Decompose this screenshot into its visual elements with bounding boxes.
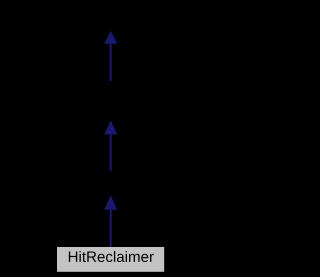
node B: middle inheritance arrowhead — [104, 120, 117, 134]
label HitReclaimer — [69, 251, 154, 262]
inheritance diagram canvas — [0, 0, 221, 277]
node HitReclaimer box — [57, 247, 164, 272]
wire: top inheritance edge shaft — [110, 43, 112, 81]
node A: top inheritance arrowhead — [104, 31, 117, 44]
wire: middle inheritance edge shaft — [110, 134, 112, 171]
node C: bottom inheritance arrowhead — [104, 195, 117, 209]
wire: bottom inheritance edge shaft — [110, 209, 112, 247]
